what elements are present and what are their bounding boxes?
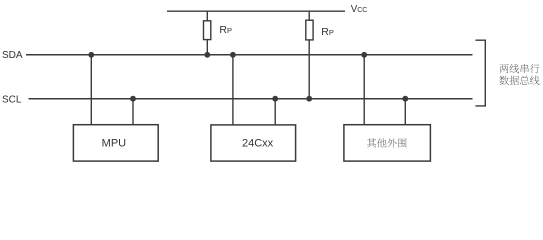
junction SDA-R_P1 [204,52,210,58]
block other-peripheral box [344,125,431,161]
junction SDA-24Cxx [230,52,236,58]
wire SDA to other-peripheral pin [363,55,365,125]
svg-text:24Cxx: 24Cxx [242,138,274,150]
junction SCL-MPU [130,96,136,102]
bus label 两线串行 (line 1) [499,64,539,73]
resistor R_P2 body [306,20,313,40]
wire Vcc rail [167,10,345,12]
junction SCL-other-peripheral [402,96,408,102]
bracket for two-wire serial data bus [475,40,485,106]
wire SDA to MPU pin [90,55,92,125]
wire resistor R_P2 down to SCL crossing SDA [308,40,310,99]
wire SCL to other-peripheral pin [404,99,406,125]
wire resistor R_P1 to SDA [206,40,208,55]
wire SCL to 24Cxx pin [274,99,276,125]
svg-text:RP: RP [219,24,232,36]
svg-text:SCL: SCL [2,95,22,106]
wire SCL bus line [29,98,473,100]
wire resistor R_P1 stem to Vcc rail [206,11,208,21]
junction SCL-24Cxx [272,96,278,102]
wire SDA bus line [26,54,473,56]
svg-text:MPU: MPU [102,138,127,150]
wire SCL to MPU pin [132,99,134,125]
junction SCL-R_P2 [306,96,312,102]
junction SDA-other-peripheral [361,52,367,58]
resistor R_P1 body [204,21,211,40]
svg-text:SDA: SDA [2,50,23,61]
svg-text:RP: RP [321,26,334,38]
wire resistor R_P2 stem to Vcc rail [308,11,310,20]
block 24Cxx box [211,125,296,161]
wire SDA to 24Cxx pin [232,55,234,125]
block MPU box [73,125,158,161]
junction SDA-MPU [88,52,94,58]
bus label 数据总线 (line 2) [499,76,539,85]
block label 其他外围 [367,138,407,147]
